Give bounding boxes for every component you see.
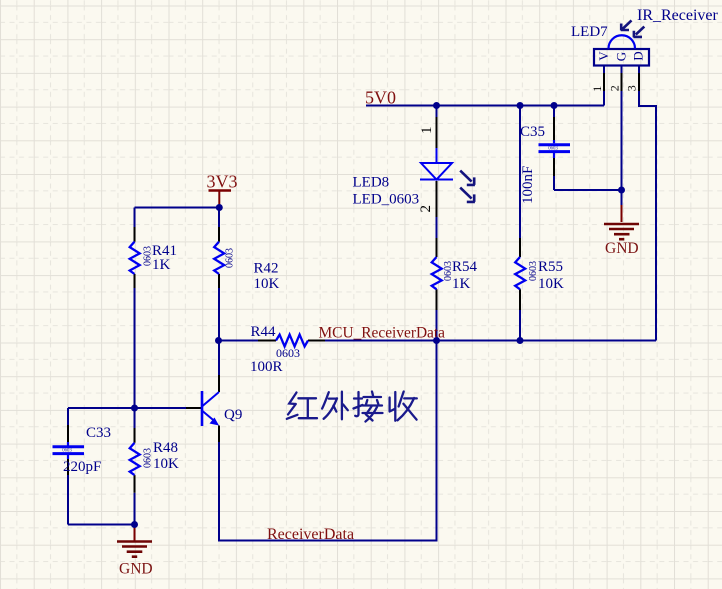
svg-text:10K: 10K xyxy=(538,276,564,292)
resistor R48 zigzag xyxy=(130,443,140,475)
svg-text:LED_0603: LED_0603 xyxy=(353,192,420,208)
svg-text:2: 2 xyxy=(608,85,622,91)
svg-text:0603: 0603 xyxy=(548,147,558,152)
pin 1 of LED8 (black) xyxy=(436,117,438,148)
svg-text:1: 1 xyxy=(590,86,604,92)
svg-text:R44: R44 xyxy=(251,324,277,340)
svg-text:3: 3 xyxy=(625,85,639,91)
resistor R41 pins (black) xyxy=(134,227,136,288)
junction 5V0/R55 xyxy=(517,102,524,109)
IR receiver LED7 dome xyxy=(609,35,636,48)
wire 5V0 horizontal bus xyxy=(366,105,604,107)
svg-text:V: V xyxy=(596,51,611,61)
resistor R55 pins (black) xyxy=(519,238,521,310)
wire LED8/R54 branch vertical xyxy=(436,106,438,341)
junction R54/data xyxy=(433,337,440,344)
svg-text:0603: 0603 xyxy=(276,346,300,360)
svg-text:3V3: 3V3 xyxy=(207,172,238,192)
svg-text:GND: GND xyxy=(119,561,153,578)
svg-text:G: G xyxy=(614,52,629,61)
svg-text:0603: 0603 xyxy=(225,248,236,268)
svg-text:LED8: LED8 xyxy=(353,175,390,191)
transistor Q9 symbol xyxy=(202,391,219,426)
svg-text:R42: R42 xyxy=(254,261,279,277)
Q9 collector pin (black) xyxy=(218,375,220,392)
junction 5V0/C35 xyxy=(551,102,558,109)
junction 3V3 node xyxy=(216,204,223,211)
Q9 base pin (black) xyxy=(186,407,201,409)
IR receiver LED7: pins wires xyxy=(604,66,656,341)
text 红外接收 annotation xyxy=(287,392,417,422)
IR receiver pins black segments xyxy=(604,73,639,91)
svg-text:R55: R55 xyxy=(538,259,563,275)
LED D8 symbol xyxy=(420,148,453,180)
resistor R44 zigzag xyxy=(276,335,308,347)
svg-text:1: 1 xyxy=(419,127,435,135)
svg-text:IR_Receiver: IR_Receiver xyxy=(637,7,719,24)
svg-text:10K: 10K xyxy=(254,276,280,292)
svg-text:100nF: 100nF xyxy=(520,166,536,204)
resistor R48 pins (black) xyxy=(134,428,136,493)
resistor R55 zigzag xyxy=(515,257,525,289)
junction C35/GND xyxy=(618,187,625,194)
junction C33/R48/GND xyxy=(131,521,138,528)
svg-text:ReceiverData: ReceiverData xyxy=(267,526,354,543)
resistor R44 pins (black) xyxy=(258,340,325,342)
resistor R54 pins (black) xyxy=(436,238,438,310)
svg-text:10K: 10K xyxy=(153,456,179,472)
wire 3V3 to R41 horizontal xyxy=(135,207,220,209)
wire R42 column vertical xyxy=(218,208,220,341)
svg-text:MCU_ReceiverData: MCU_ReceiverData xyxy=(319,325,446,342)
svg-text:5V0: 5V0 xyxy=(365,88,396,108)
pin 2 of LED8 (black) xyxy=(436,181,438,217)
svg-text:0603: 0603 xyxy=(143,448,154,468)
IR receiver LED7 body xyxy=(594,49,649,66)
capacitor C33 pins (black) xyxy=(67,425,69,475)
capacitor C35 plates xyxy=(553,140,555,158)
svg-text:LED7: LED7 xyxy=(571,24,608,40)
junction R42/R44/Q9 xyxy=(215,337,222,344)
junction base node xyxy=(131,405,138,412)
capacitor C33 plates xyxy=(67,442,69,459)
svg-text:1K: 1K xyxy=(452,276,471,292)
resistor R42 zigzag xyxy=(214,242,224,274)
svg-text:100R: 100R xyxy=(250,359,283,375)
svg-text:R54: R54 xyxy=(452,259,478,275)
ground GND at receiver xyxy=(621,205,623,222)
svg-text:R48: R48 xyxy=(153,440,178,456)
svg-text:220pF: 220pF xyxy=(63,459,101,475)
wire C33 branch xyxy=(68,408,135,525)
svg-text:2: 2 xyxy=(418,205,434,213)
wire R41 column vertical xyxy=(134,208,136,409)
wire R48 column vertical xyxy=(134,408,136,525)
LED8 emission arrows xyxy=(460,171,475,202)
resistor R42 pins (black) xyxy=(218,227,220,288)
svg-text:GND: GND xyxy=(605,240,639,257)
wire Q9 base xyxy=(135,407,187,409)
junction 5V0/LED8 xyxy=(433,102,440,109)
IR receiver incoming arrows xyxy=(621,20,645,37)
capacitor C35 pins (black) xyxy=(553,117,555,176)
wire C35 branch xyxy=(554,106,622,191)
resistor R41 zigzag xyxy=(130,242,140,274)
svg-text:C33: C33 xyxy=(86,425,111,441)
wire Q9 emitter down and bottom loop xyxy=(219,341,437,541)
svg-text:0603: 0603 xyxy=(62,449,72,454)
svg-text:1K: 1K xyxy=(152,257,171,273)
svg-text:D: D xyxy=(631,51,646,60)
junction R55/data xyxy=(517,337,524,344)
resistor R54 zigzag xyxy=(432,257,442,289)
wire R55 branch vertical xyxy=(519,106,521,341)
svg-text:C35: C35 xyxy=(520,124,545,140)
Q9 emitter pin (black) xyxy=(218,426,220,443)
svg-text:Q9: Q9 xyxy=(224,407,242,423)
wire Q9 collector xyxy=(218,341,220,376)
wire MCU_ReceiverData horizontal xyxy=(219,340,657,342)
ground GND bottom left xyxy=(134,525,136,542)
